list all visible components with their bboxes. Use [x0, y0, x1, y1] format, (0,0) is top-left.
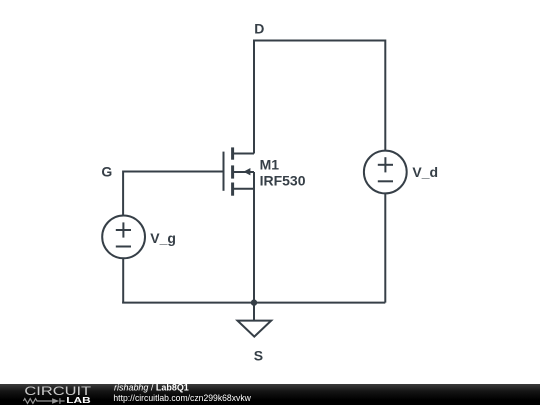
svg-text:http://circuitlab.com/czn299k6: http://circuitlab.com/czn299k68xvkw	[113, 393, 251, 404]
svg-text:IRF530: IRF530	[260, 173, 306, 189]
svg-text:G: G	[101, 164, 112, 180]
svg-text:M1: M1	[260, 156, 280, 172]
svg-text:S: S	[254, 347, 263, 363]
svg-text:D: D	[254, 21, 264, 37]
svg-text:V_g: V_g	[150, 230, 176, 246]
svg-text:rishabhg / Lab8Q1: rishabhg / Lab8Q1	[114, 382, 189, 393]
svg-text:LAB: LAB	[66, 396, 91, 405]
svg-text:V_d: V_d	[412, 164, 438, 180]
